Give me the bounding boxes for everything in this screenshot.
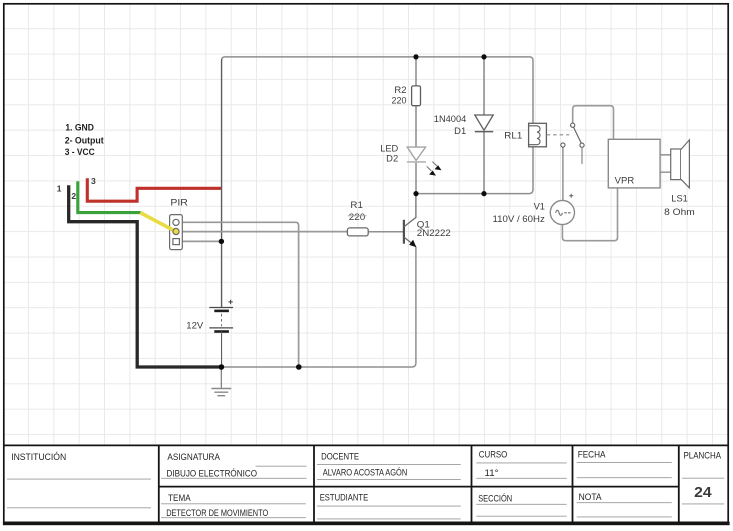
svg-text:LED: LED (380, 143, 398, 153)
svg-text:12V: 12V (186, 321, 204, 331)
svg-text:PLANCHA: PLANCHA (684, 450, 722, 461)
label R2 220 (392, 85, 407, 106)
wire: bottom ground rail (gray part) with corner up to Q1 emitter (221, 247, 416, 367)
wire: R2 top lead (415, 57, 417, 86)
wire: battery feed vertical (dark lead) (221, 59, 223, 308)
resistor R2 (412, 86, 421, 106)
wire: R2 to LED lead (415, 106, 417, 147)
svg-text:LS1: LS1 (671, 194, 688, 204)
svg-text:R2: R2 (394, 85, 406, 95)
label Q1 2N2222 (417, 219, 451, 238)
relay switch contacts (561, 123, 584, 164)
wire: green output wire from header pin 2 (78, 181, 141, 212)
svg-text:11°: 11° (485, 467, 499, 478)
svg-text:DOCENTE: DOCENTE (321, 451, 359, 462)
label V1 110V / 60Hz (493, 202, 546, 224)
svg-text:1: 1 (57, 184, 62, 194)
svg-text:D1: D1 (454, 126, 466, 136)
label LED D2 (380, 143, 398, 163)
wire: black ground wire from header pin 1 (69, 185, 220, 367)
svg-text:ESTUDIANTE: ESTUDIANTE (320, 491, 369, 502)
svg-text:220: 220 (349, 212, 366, 222)
wire: middle rail from LED/Q1 node to relay bottom (416, 147, 533, 194)
connector J1 PIR body (170, 215, 183, 250)
transistor Q1 2N2222 (404, 194, 416, 248)
wire: VPR to speaker upper (660, 154, 671, 156)
svg-text:3 - VCC: 3 - VCC (65, 146, 95, 157)
ground symbol (211, 367, 231, 396)
wire: left relay contact down to V1 (562, 147, 564, 201)
junction node top D1 (481, 54, 486, 59)
wire: D1 top lead (483, 57, 485, 115)
svg-text:220: 220 (392, 96, 407, 106)
wire: PIR pin3 to battery column (182, 240, 221, 242)
connector J1 PIR pins (173, 219, 180, 244)
svg-text:TEMA: TEMA (168, 492, 191, 503)
svg-text:3: 3 (91, 176, 96, 186)
wire: LED to middle rail lead (415, 162, 417, 194)
junction node mid R2/Q1 (413, 191, 418, 196)
svg-text:D2: D2 (386, 154, 398, 164)
svg-text:NOTA: NOTA (579, 491, 603, 502)
title block texts (11, 448, 721, 517)
diode D1 1N4004 (475, 115, 493, 132)
svg-text:1N4004: 1N4004 (434, 114, 467, 124)
svg-text:8 Ohm: 8 Ohm (664, 207, 695, 217)
driver box U-VPR (608, 139, 660, 188)
svg-text:R1: R1 (350, 200, 363, 210)
svg-text:ALVARO ACOSTA AGÓN: ALVARO ACOSTA AGÓN (323, 467, 408, 478)
wire: PIR pin2 to R1 (182, 231, 347, 233)
resistor R1 (347, 228, 368, 236)
label LS1 8 Ohm (664, 194, 695, 218)
title block (3, 445, 730, 525)
svg-text:ASIGNATURA: ASIGNATURA (167, 451, 220, 462)
svg-text:INSTITUCIÓN: INSTITUCIÓN (11, 451, 66, 462)
AC source V1 (550, 194, 574, 225)
wire: R1 to Q1 base (368, 231, 403, 233)
svg-text:FECHA: FECHA (578, 448, 606, 459)
wire: switch common up and over to VPR top (573, 106, 614, 140)
dashed relay actuation link (547, 134, 570, 136)
junction node top R2 (413, 54, 418, 59)
wire: red VCC wire from header pin 3 (87, 178, 221, 201)
svg-text:2N2222: 2N2222 (417, 228, 451, 238)
wire: PIR pin1 to ground rail (182, 222, 298, 367)
junction node PIR pin3 / battery (219, 239, 224, 244)
svg-text:2: 2 (71, 191, 76, 201)
LED D2 (407, 147, 442, 176)
svg-text:1. GND: 1. GND (65, 121, 94, 132)
svg-text:24: 24 (694, 485, 712, 501)
svg-text:RL1: RL1 (504, 130, 522, 140)
wire: VPR to speaker lower (660, 171, 671, 173)
wire: yellow jumper to PIR pin 2 (140, 213, 176, 232)
wire: top VCC rail from battery column to relay (222, 57, 533, 308)
svg-text:2- Output: 2- Output (65, 134, 104, 145)
svg-text:VPR: VPR (615, 176, 635, 186)
svg-text:110V / 60Hz: 110V / 60Hz (493, 214, 546, 224)
junction node battery / ground rail (219, 364, 225, 370)
wire: V1 bottom to VPR bottom (562, 188, 617, 241)
annotation pinout text (65, 121, 104, 157)
svg-text:V1: V1 (534, 202, 545, 212)
junction node pin1 drop / ground rail (296, 364, 302, 370)
svg-text:PIR: PIR (170, 197, 188, 207)
label R1 220 (348, 200, 367, 222)
relay coil RL1 (529, 123, 547, 147)
battery BT1 12V (209, 300, 233, 367)
svg-text:CURSO: CURSO (479, 448, 508, 459)
wire: D1 bottom lead (483, 132, 485, 194)
junction node mid D1 (481, 191, 486, 196)
svg-text:DETECTOR DE MOVIMIENTO: DETECTOR DE MOVIMIENTO (166, 507, 268, 518)
svg-text:SECCIÓN: SECCIÓN (478, 493, 512, 504)
speaker LS1 (671, 140, 690, 188)
title block ruled lines (7, 463, 724, 519)
label 1N4004 D1 (434, 114, 467, 136)
svg-text:DIBUJO ELECTRÓNICO: DIBUJO ELECTRÓNICO (167, 467, 258, 478)
